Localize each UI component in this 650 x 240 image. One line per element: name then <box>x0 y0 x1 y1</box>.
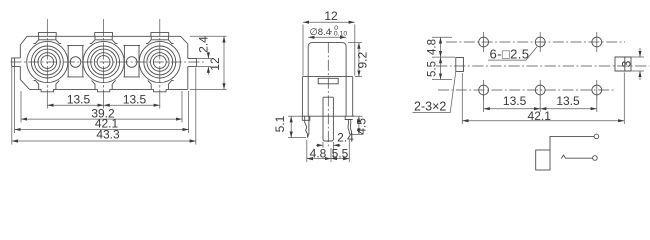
jack3 center pin circle <box>153 56 166 69</box>
switch terminal circle <box>593 156 598 161</box>
svg-text:13.5: 13.5 <box>67 92 91 106</box>
wire to tip terminal <box>550 136 594 150</box>
small circle between jack2 and jack3 <box>126 57 137 68</box>
top row centerline <box>446 41 625 43</box>
jack1 bottom tab <box>41 89 53 91</box>
jack1 outer circle <box>27 41 68 82</box>
jack2 top pedestal <box>90 36 118 43</box>
hole A2 <box>535 37 545 47</box>
jack3 top bump <box>151 33 169 37</box>
hole A1 <box>479 37 489 47</box>
svg-text:43.3: 43.3 <box>96 127 120 141</box>
hole A2 centerline <box>539 32 541 52</box>
svg-text:6-□2.5: 6-□2.5 <box>490 46 530 61</box>
jack1 top pedestal <box>34 36 62 43</box>
hole A3 centerline <box>596 32 598 52</box>
dimension dia 8.4 line <box>308 36 346 38</box>
left slot 3x2 <box>456 58 464 72</box>
dimension 43.3 <box>12 67 196 145</box>
svg-text:9.2: 9.2 <box>356 52 370 69</box>
svg-text:13.5: 13.5 <box>123 92 147 106</box>
svg-text:12: 12 <box>324 9 338 23</box>
jack body box <box>536 150 550 170</box>
right slot 3x2 <box>615 57 631 71</box>
hole B2 centerline <box>539 80 541 100</box>
jack2 outer circle <box>83 41 124 82</box>
jack3 ring 4 <box>151 53 170 72</box>
svg-text:12: 12 <box>208 57 222 71</box>
jack2 bottom pedestal <box>92 80 116 89</box>
jack1 top bump <box>38 33 56 37</box>
dimension 2.4 (center pin width) <box>316 142 341 159</box>
left foot <box>302 116 310 120</box>
vertical centerline jack 1 <box>46 19 48 97</box>
svg-text:5.1: 5.1 <box>273 115 287 132</box>
dimension 9.2 (barrel height) <box>348 43 362 77</box>
svg-text:2.4: 2.4 <box>337 131 354 145</box>
right wavy leg <box>348 119 352 134</box>
jack2 ring 3 <box>91 49 117 75</box>
svg-text:13.5: 13.5 <box>503 94 527 108</box>
body rectangle <box>302 77 352 117</box>
center slot <box>323 97 333 116</box>
dimension 13.5 13.5 (hole spacing, right view) <box>484 96 597 113</box>
jack1 bottom pedestal <box>34 80 60 89</box>
vertical centerline <box>327 42 329 147</box>
hole B3 centerline <box>596 80 598 100</box>
jack3 ring 2 <box>144 46 176 78</box>
jack2 ring 4 <box>94 53 113 72</box>
hole B2 <box>535 85 545 95</box>
dimension 5.1 (left leg length) <box>288 116 306 137</box>
svg-text:2-3×2: 2-3×2 <box>414 100 446 114</box>
svg-text:4.8: 4.8 <box>310 147 327 161</box>
tip terminal circle <box>594 134 599 139</box>
dimension 4.5 (right leg length) <box>351 116 363 134</box>
leader 2-3x2 <box>412 72 455 113</box>
svg-text:4.5: 4.5 <box>355 118 369 135</box>
dimension 42.1 <box>15 67 189 133</box>
hole B3 <box>592 85 602 95</box>
jack2 ring 2 <box>88 46 120 78</box>
dimension 39.2 <box>21 91 182 123</box>
notch under shoulder <box>318 78 338 84</box>
svg-text:-: - <box>329 26 332 37</box>
bottom row centerline <box>438 89 614 91</box>
dimension 4.8 / 5.5 (pin pitch) <box>307 140 350 162</box>
body bottom edge <box>30 88 188 90</box>
switch contact wire <box>561 155 592 159</box>
svg-text:∅8.4: ∅8.4 <box>310 27 331 38</box>
dimension 12 (body height, left view) <box>190 36 227 89</box>
dimension 42.1 (right view) <box>462 73 624 125</box>
svg-text:42.1: 42.1 <box>528 109 552 123</box>
small circle between jack1 and jack2 <box>70 57 81 68</box>
jack3 ring 3 <box>147 49 173 75</box>
vertical centerline jack 3 <box>159 19 161 97</box>
svg-text:13.5: 13.5 <box>556 94 580 108</box>
left hook leg <box>305 116 309 137</box>
svg-text:5.5: 5.5 <box>332 147 349 161</box>
left mounting tab <box>12 58 21 67</box>
dimension 13.5 13.5 (jack spacing) <box>47 97 160 109</box>
jack1 center pin circle <box>41 56 54 69</box>
right mounting tab <box>188 59 197 67</box>
horizontal centerline <box>11 61 207 63</box>
jack2 bottom tab <box>97 89 109 91</box>
leader 6-sq2.5 <box>488 47 537 60</box>
svg-text:0.10: 0.10 <box>334 30 347 37</box>
center pin <box>323 116 333 141</box>
hole B1 <box>479 85 489 95</box>
jack3 top pedestal <box>146 36 174 43</box>
jack3 bottom tab <box>154 89 166 91</box>
svg-text:3: 3 <box>620 60 634 67</box>
body outline <box>20 36 188 89</box>
jack2 center pin circle <box>97 56 110 69</box>
svg-text:2.4: 2.4 <box>197 36 211 53</box>
svg-text:5.5: 5.5 <box>427 61 439 77</box>
dimension 5.5 / 4.8 (left, right view) <box>432 37 455 79</box>
jack2 top bump <box>95 33 113 37</box>
barrel (dia 8.4) <box>308 43 346 77</box>
jack1 ring 3 <box>34 49 60 75</box>
jack3 bottom pedestal <box>148 80 174 89</box>
dimension 2.4 (right tab thickness) <box>188 52 211 75</box>
hole A3 <box>592 37 602 47</box>
hole A1 centerline <box>483 32 485 52</box>
web between jack2 and jack3 <box>123 45 140 77</box>
jack3 outer circle <box>139 41 180 82</box>
jack1 ring 4 <box>38 53 57 72</box>
dimension 12 (width, top) <box>303 22 355 75</box>
right foot <box>345 116 354 119</box>
middle centerline <box>436 65 650 67</box>
dimension 3 (right slot height) <box>631 48 644 80</box>
svg-text:4.8: 4.8 <box>427 39 439 55</box>
vertical centerline jack 2 <box>103 19 105 97</box>
hole B1 centerline <box>483 80 485 100</box>
web between jack1 and jack2 <box>67 45 84 77</box>
jack1 ring 2 <box>31 46 63 78</box>
